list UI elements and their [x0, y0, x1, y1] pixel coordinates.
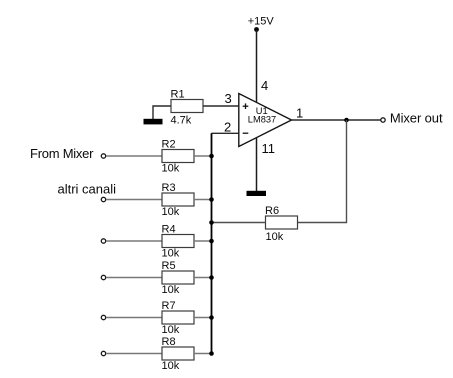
wire terminal to R7	[106, 317, 162, 319]
node R2 junction	[209, 154, 214, 159]
svg-text:+15V: +15V	[248, 16, 275, 28]
wire terminal to R3	[106, 199, 162, 201]
resistor R6	[265, 205, 298, 243]
terminal Mixer out	[381, 118, 385, 122]
svg-text:From Mixer: From Mixer	[30, 146, 94, 161]
resistor R1	[171, 89, 204, 127]
svg-text:4.7k: 4.7k	[171, 115, 192, 127]
wire pin 11 to ground	[256, 138, 258, 192]
terminal input 4	[101, 275, 105, 279]
node output junction	[344, 118, 349, 123]
svg-text:10k: 10k	[162, 324, 180, 336]
resistor R5	[162, 271, 194, 284]
resistor R3	[162, 193, 194, 206]
summing bus	[211, 133, 213, 354]
svg-text:4: 4	[261, 78, 268, 93]
wire R7 to bus	[194, 317, 212, 319]
wire R6 to bus	[212, 222, 266, 224]
svg-text:R2: R2	[162, 139, 176, 151]
svg-text:1: 1	[296, 106, 303, 121]
terminal input 3	[101, 239, 105, 243]
wire terminal to R4	[106, 240, 162, 242]
svg-text:10k: 10k	[162, 248, 180, 260]
input row R5	[101, 260, 214, 296]
svg-text:Mixer out: Mixer out	[390, 110, 443, 125]
node R6 bus junction	[209, 220, 214, 225]
wire terminal to R8	[106, 353, 162, 355]
input row R2	[101, 139, 214, 175]
svg-text:altri canali: altri canali	[58, 182, 117, 197]
wire R5 to bus	[194, 277, 212, 279]
wire R2 to bus	[194, 155, 212, 157]
svg-text:10k: 10k	[162, 360, 180, 372]
wire output down to R6	[298, 120, 347, 223]
svg-text:10k: 10k	[266, 231, 284, 243]
svg-text:2: 2	[224, 120, 231, 135]
svg-text:3: 3	[225, 91, 232, 106]
input row R8	[101, 336, 214, 372]
ground (op-amp)	[247, 191, 267, 196]
node R8 junction	[209, 351, 214, 356]
svg-text:LM837: LM837	[248, 114, 276, 124]
wire R3 to bus	[194, 199, 212, 201]
wire terminal to R5	[106, 277, 162, 279]
wire terminal to R2	[106, 155, 162, 157]
terminal input 2	[101, 197, 105, 201]
ground (R1)	[144, 119, 163, 125]
input row R4	[101, 224, 214, 260]
resistor R2	[162, 150, 194, 163]
resistor R8	[162, 347, 194, 360]
op-amp U1 LM837	[239, 94, 292, 147]
terminal input 1	[101, 154, 105, 158]
input row R3	[101, 182, 214, 218]
svg-text:R6: R6	[265, 205, 279, 217]
svg-text:R1: R1	[171, 89, 185, 101]
node R7 junction	[209, 315, 214, 320]
svg-text:11: 11	[262, 141, 276, 156]
wire R1 to pin 3	[203, 105, 239, 107]
wire R4 to bus	[194, 240, 212, 242]
node R4 junction	[209, 239, 214, 244]
svg-text:R4: R4	[162, 224, 176, 236]
wire supply to op-amp pin 4	[256, 30, 258, 103]
terminal input 5	[101, 315, 105, 319]
resistor R4	[162, 235, 194, 248]
wire output pin 1	[292, 119, 381, 121]
svg-text:10k: 10k	[162, 206, 180, 218]
wire R1 left to ground	[153, 106, 171, 119]
svg-text:10k: 10k	[162, 284, 180, 296]
wire pin 2 from bus	[212, 132, 239, 134]
node R5 junction	[209, 275, 214, 280]
terminal input 6	[101, 351, 105, 355]
svg-text:R3: R3	[162, 182, 176, 194]
svg-text:R7: R7	[162, 300, 176, 312]
resistor R7	[162, 311, 194, 324]
wire R8 to bus	[194, 353, 212, 355]
+15V supply node dot	[254, 27, 259, 32]
node R3 junction	[209, 197, 214, 202]
svg-text:R5: R5	[162, 260, 176, 272]
svg-text:10k: 10k	[162, 163, 180, 175]
svg-text:R8: R8	[162, 336, 176, 348]
input row R7	[101, 300, 214, 336]
